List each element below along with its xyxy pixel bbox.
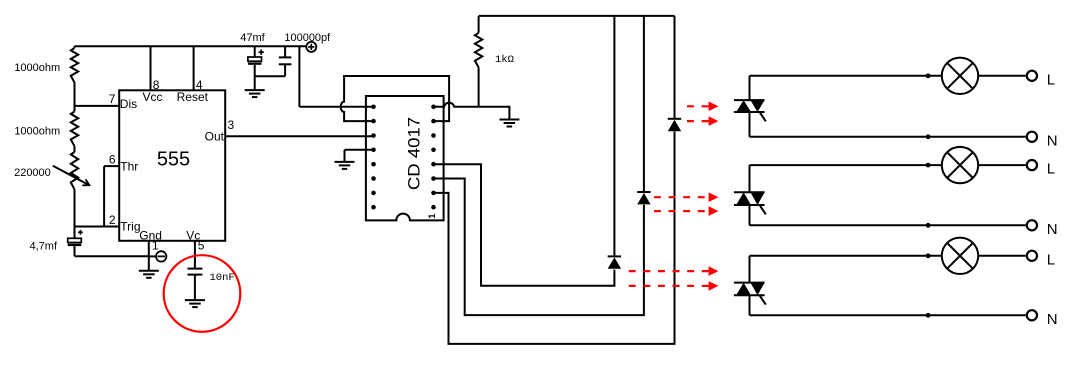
svg-text:5: 5 <box>198 238 205 252</box>
svg-text:Vcc: Vcc <box>142 90 162 104</box>
svg-text:N: N <box>1047 311 1058 328</box>
svg-text:L: L <box>1047 71 1055 88</box>
svg-text:CD 4017: CD 4017 <box>404 117 423 190</box>
svg-text:2: 2 <box>109 213 116 227</box>
svg-text:1: 1 <box>152 239 159 253</box>
svg-text:Out: Out <box>205 130 225 144</box>
svg-text:1000ohm: 1000ohm <box>14 62 60 74</box>
svg-text:L: L <box>1047 161 1055 178</box>
svg-text:Thr: Thr <box>120 159 138 173</box>
svg-text:N: N <box>1047 132 1058 149</box>
svg-text:N: N <box>1047 221 1058 238</box>
svg-text:Dis: Dis <box>120 97 137 111</box>
svg-text:220000: 220000 <box>14 167 51 179</box>
svg-text:L: L <box>1047 251 1055 268</box>
svg-text:1: 1 <box>427 213 438 219</box>
svg-text:6: 6 <box>109 153 116 167</box>
svg-text:1kΩ: 1kΩ <box>495 54 514 66</box>
svg-text:47mf: 47mf <box>240 32 265 44</box>
svg-text:10nF: 10nF <box>210 272 235 284</box>
svg-text:555: 555 <box>157 149 190 171</box>
svg-text:Reset: Reset <box>177 90 209 104</box>
svg-text:7: 7 <box>109 92 116 106</box>
svg-text:4,7mf: 4,7mf <box>29 241 57 253</box>
svg-text:Trig: Trig <box>120 220 140 234</box>
svg-text:3: 3 <box>228 118 235 132</box>
svg-text:1000ohm: 1000ohm <box>14 125 60 137</box>
